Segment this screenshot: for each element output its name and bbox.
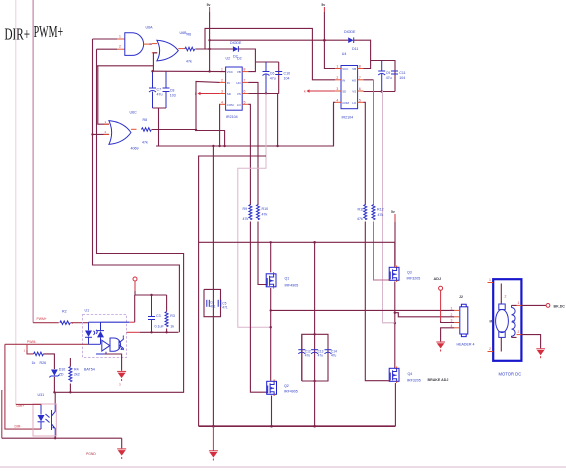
wire: Q4 source to bus corner	[394, 383, 396, 426]
wire: R8 node drop to COM rail	[196, 131, 225, 147]
svg-text:BRAKE ADJ: BRAKE ADJ	[428, 378, 449, 382]
svg-text:C8: C8	[170, 89, 175, 93]
wire: R26 to zener	[44, 354, 55, 369]
ground (header)	[436, 342, 445, 352]
resistor R2	[60, 321, 70, 325]
svg-text:103: 103	[170, 94, 176, 98]
wire: ground bus	[199, 425, 396, 427]
svg-text:104: 104	[399, 76, 405, 80]
svg-text:R11: R11	[358, 208, 364, 212]
svg-text:1: 1	[336, 65, 338, 69]
wire: DIR+ to opto anode	[16, 403, 41, 405]
wire: opto U1 vcc pin up	[129, 321, 135, 323]
svg-text:IRF4905: IRF4905	[285, 284, 299, 288]
wire: ground stem	[121, 438, 123, 448]
wire: motor to BK.DC	[521, 304, 546, 306]
svg-text:Q3: Q3	[407, 271, 412, 275]
svg-text:47u: 47u	[318, 354, 324, 358]
wire: cap bank box	[302, 334, 328, 381]
wire: R10 to Q1 gate	[258, 222, 266, 285]
wire: U6C in2 branch	[93, 133, 109, 135]
ground (motor)	[536, 349, 545, 358]
svg-text:R2: R2	[62, 310, 67, 314]
wire: U2 VS wire	[248, 93, 279, 95]
svg-text:47u: 47u	[270, 77, 276, 81]
resistor R11	[357, 205, 367, 222]
net arrow SD U4	[304, 89, 335, 93]
wire: P5 to header pin3	[440, 296, 442, 321]
svg-text:D10: D10	[59, 368, 66, 372]
wire: RC node riser to U6C in1	[98, 66, 109, 124]
capacitor C4	[207, 300, 216, 309]
svg-text:DIR+: DIR+	[5, 25, 31, 44]
logic gate U6B	[152, 31, 191, 61]
wire: spine from COM rail down	[212, 146, 214, 289]
capacitor C14	[325, 350, 338, 358]
wire: cap bank spine to bus	[314, 334, 316, 426]
wire: gate row2 out to U2 IN	[152, 82, 220, 130]
svg-text:2k2: 2k2	[74, 373, 80, 377]
svg-text:BK.DC: BK.DC	[554, 305, 566, 309]
svg-text:5v: 5v	[321, 3, 325, 7]
svg-text:Q4: Q4	[408, 372, 413, 376]
svg-text:J2: J2	[459, 295, 463, 299]
svg-text:DIR-: DIR-	[15, 425, 22, 429]
svg-text:R10: R10	[262, 207, 269, 211]
svg-text:ZD: ZD	[59, 373, 64, 377]
wire: rail to cap bank spine	[314, 242, 316, 334]
capacitor C12	[298, 350, 311, 358]
svg-text:k: k	[304, 90, 306, 94]
wire: U2 VS drop	[278, 94, 279, 147]
svg-text:R26: R26	[40, 361, 47, 365]
wire: RC node horizontal	[96, 66, 153, 71]
ground (opto U1)	[117, 371, 126, 386]
svg-text:PWM+: PWM+	[37, 317, 47, 321]
wire: PS817 emitter drop	[54, 436, 56, 438]
wire: U2 LO to R9	[248, 104, 250, 205]
capacitor C7	[149, 71, 163, 108]
svg-text:3: 3	[451, 319, 453, 323]
svg-text:47k: 47k	[142, 141, 148, 145]
svg-text:47k: 47k	[243, 217, 249, 221]
wire: Q3 drain	[394, 242, 396, 267]
svg-text:IR2104: IR2104	[342, 116, 354, 120]
svg-text:Q2: Q2	[284, 384, 289, 388]
resistor R3	[165, 295, 175, 332]
connector J2	[451, 295, 475, 347]
wire: U6B in2 from RC node	[153, 53, 157, 66]
svg-text:IRF3205: IRF3205	[407, 379, 421, 383]
svg-text:1: 1	[221, 68, 223, 72]
capacitor C11	[391, 71, 406, 80]
svg-text:R3: R3	[170, 314, 175, 318]
wire: U6A in2	[97, 48, 118, 50]
capacitor C13	[311, 350, 324, 358]
wire: divider tap	[26, 344, 28, 349]
svg-text:DIODE: DIODE	[230, 41, 242, 45]
logic gate U6C	[104, 111, 138, 145]
svg-text:C9: C9	[386, 71, 391, 75]
svg-text:5v: 5v	[391, 210, 395, 214]
resistor R9	[243, 205, 252, 222]
svg-text:47k: 47k	[186, 60, 192, 64]
wire: U4 bootstrap top	[371, 61, 395, 92]
svg-text:R6: R6	[187, 33, 192, 37]
svg-text:2: 2	[518, 330, 520, 334]
svg-text:1: 1	[489, 278, 491, 282]
svg-text:47u: 47u	[386, 76, 392, 80]
optocoupler U31 PS817	[33, 393, 56, 436]
svg-text:104: 104	[284, 77, 290, 81]
wire: cap bank left leg	[301, 334, 303, 381]
svg-text:VS: VS	[237, 92, 241, 96]
svg-text:HO: HO	[352, 78, 357, 82]
wire: U2 HO to R10	[248, 82, 258, 205]
svg-text:SD: SD	[227, 92, 231, 96]
wire: U2 bootstrap top	[255, 61, 278, 63]
diode D2	[230, 41, 242, 59]
svg-text:C7: C7	[157, 88, 162, 92]
wire: D2 to U2 VB node	[238, 49, 255, 72]
resistor R8	[131, 118, 152, 151]
wire: opto U1 gnd	[105, 354, 122, 371]
wire: D4 to U4 VB node	[354, 40, 371, 60]
wire: U4 LO to R11	[364, 102, 366, 205]
output gate	[102, 340, 110, 351]
ground (PS817)	[117, 449, 126, 459]
svg-text:1: 1	[119, 35, 121, 39]
svg-text:ADJ: ADJ	[434, 277, 442, 281]
svg-text:8: 8	[359, 65, 361, 69]
svg-text:HEADER 4: HEADER 4	[457, 343, 475, 347]
svg-text:6: 6	[359, 87, 361, 91]
wire: U6A in1	[93, 38, 118, 40]
svg-text:COM: COM	[227, 103, 234, 107]
svg-text:5v: 5v	[207, 3, 211, 7]
wire: shunt bottom	[383, 322, 395, 324]
svg-text:VCC: VCC	[342, 67, 348, 71]
IC U4 IR2104	[335, 52, 363, 120]
svg-text:MOTOR DC: MOTOR DC	[499, 372, 522, 377]
capacitor C8	[163, 71, 176, 108]
wire: U6A out to U6B in1	[150, 43, 152, 45]
transistor Q1	[266, 272, 298, 289]
svg-text:47k: 47k	[357, 217, 363, 221]
wire: over-the-top to U4 IN	[205, 28, 335, 79]
svg-text:2: 2	[221, 78, 223, 82]
svg-text:1k: 1k	[170, 325, 174, 329]
ground (main bus)	[209, 426, 218, 460]
wire: phase A to header pin1	[271, 309, 455, 311]
svg-text:7: 7	[359, 76, 361, 80]
wire: R2 to opto anode	[71, 322, 89, 324]
svg-text:1: 1	[518, 301, 520, 305]
wire: R9 to Q2 gate	[250, 222, 266, 393]
wire: PWM- riser down	[5, 344, 41, 429]
wire: PWM- return	[5, 343, 89, 345]
svg-text:C6: C6	[270, 72, 275, 76]
svg-text:C10: C10	[284, 72, 291, 76]
optocoupler U1 6N137	[83, 309, 127, 358]
svg-text:1: 1	[451, 306, 453, 310]
svg-text:IRF4905: IRF4905	[284, 390, 298, 394]
wire: phase B to header pin2	[395, 313, 454, 317]
svg-text:Q1: Q1	[285, 277, 290, 281]
svg-text:PGND: PGND	[86, 452, 96, 456]
svg-text:47k: 47k	[262, 213, 268, 217]
svg-text:D2: D2	[237, 57, 242, 61]
svg-text:U4: U4	[342, 52, 347, 56]
svg-text:6: 6	[244, 90, 246, 94]
wire: VCC rail y40 to right	[210, 39, 349, 41]
svg-text:HO: HO	[236, 81, 241, 85]
svg-text:VCC: VCC	[227, 70, 233, 74]
wire: R12 to Q3 gate	[374, 222, 390, 281]
power port P1	[207, 3, 211, 12]
svg-text:471: 471	[210, 305, 216, 309]
wire: DIR+ riser	[15, 0, 17, 404]
svg-text:BAT54: BAT54	[84, 368, 95, 372]
power port P4	[133, 277, 137, 295]
input led pair	[89, 321, 101, 323]
svg-text:VB: VB	[237, 70, 241, 74]
svg-text:2: 2	[119, 45, 121, 49]
wire: Q2 source to bus	[271, 396, 273, 427]
svg-text:IN: IN	[227, 81, 230, 85]
capacitor C6	[263, 62, 276, 94]
svg-text:4: 4	[451, 324, 453, 328]
transistor Q3	[388, 266, 420, 283]
IC U2 IR2104	[220, 57, 248, 120]
wire: U2 bootstrap right	[278, 62, 280, 94]
logic gate U6A (AND)	[117, 26, 153, 56]
capacitor C9	[378, 61, 392, 92]
power port P3	[391, 210, 395, 222]
svg-text:U31: U31	[38, 393, 45, 397]
motor MOTOR DC	[488, 278, 522, 377]
svg-text:COM: COM	[342, 101, 349, 105]
sheet border bottom	[0, 466, 566, 468]
svg-text:2: 2	[336, 76, 338, 80]
svg-text:5: 5	[244, 100, 246, 104]
wire: Q1 drain from rail	[270, 242, 272, 272]
svg-text:IN: IN	[342, 78, 345, 82]
svg-text:1k: 1k	[32, 361, 36, 365]
power port P5	[439, 286, 443, 296]
svg-text:PWM+: PWM+	[34, 22, 64, 41]
wire: R6 out to drivers	[195, 48, 233, 50]
wire: U2 sense line	[238, 94, 271, 328]
wire: PWM+ riser	[32, 0, 34, 323]
svg-text:7: 7	[244, 78, 246, 82]
wire: U4 VB jog	[364, 61, 371, 69]
svg-text:4069: 4069	[131, 147, 139, 151]
wire: snubber box	[204, 289, 221, 316]
wire: COM ground rail y146	[156, 104, 334, 146]
wire: wrapB riser (DIR opto out to U6A in2)	[55, 49, 183, 404]
svg-text:R4: R4	[74, 368, 79, 372]
svg-text:471: 471	[222, 306, 228, 310]
wire: PS817 bottom bus to ground	[2, 437, 122, 439]
wire: P2 riser to U4 VCC	[324, 12, 335, 69]
wire: U4 HO to R12	[364, 79, 374, 81]
transistor Q4	[388, 367, 421, 384]
resistor R6	[185, 47, 195, 51]
svg-text:M: M	[490, 320, 493, 324]
svg-text:8: 8	[244, 68, 246, 72]
svg-text:U2: U2	[226, 57, 231, 61]
svg-text:2: 2	[505, 295, 507, 299]
svg-text:2: 2	[489, 347, 491, 351]
svg-text:C3: C3	[156, 314, 161, 318]
port BK.DC	[546, 304, 565, 309]
svg-text:47u: 47u	[331, 354, 337, 358]
svg-text:U1: U1	[85, 309, 90, 313]
svg-text:3: 3	[221, 90, 223, 94]
wire: U4 sense line	[382, 92, 396, 323]
svg-text:VB: VB	[352, 67, 356, 71]
wire: U4 COM drop to rail y146	[334, 102, 336, 146]
capacitor C10	[275, 72, 290, 81]
net arrow SD U2	[195, 92, 220, 96]
svg-text:0.1uF: 0.1uF	[155, 325, 165, 329]
wire: left descender y156 rail to bus	[199, 156, 201, 426]
capacitor C3	[148, 295, 164, 332]
svg-text:PWM-: PWM-	[27, 340, 36, 344]
svg-text:R8: R8	[143, 118, 148, 122]
wire: caps bottom loop	[153, 108, 167, 146]
svg-text:4: 4	[336, 98, 338, 102]
svg-text:C11: C11	[399, 71, 405, 75]
svg-text:4: 4	[221, 100, 223, 104]
wire: header pin4 to ground	[441, 328, 455, 342]
power port P2	[321, 3, 325, 12]
wire: main +rail y242	[199, 241, 395, 243]
svg-text:5: 5	[359, 98, 361, 102]
wire: phase B node	[394, 282, 396, 369]
svg-text:IR2104: IR2104	[226, 115, 238, 119]
svg-text:U6C: U6C	[130, 111, 138, 115]
resistor R4	[69, 358, 95, 392]
wire: wrapA riser (PWM opto out to U6A in1)	[93, 39, 180, 332]
svg-text:47u: 47u	[157, 93, 163, 97]
svg-text:DIODE: DIODE	[344, 30, 356, 34]
svg-text:SD: SD	[342, 90, 346, 94]
svg-text:3: 3	[336, 87, 338, 91]
wire: opto U1 output node	[127, 331, 141, 333]
svg-text:U6A: U6A	[146, 26, 154, 30]
wire: P1 riser to U2 VCC	[209, 12, 211, 72]
resistor R10	[257, 205, 269, 220]
svg-text:R9: R9	[243, 207, 248, 211]
wire: vcc wire to pullup	[135, 294, 167, 296]
svg-text:R12: R12	[377, 208, 384, 212]
wire: PWM+ into resistor	[33, 322, 59, 324]
wire: caps top rail to U2 VCC	[153, 70, 226, 72]
svg-text:47u: 47u	[305, 354, 311, 358]
svg-text:47k: 47k	[378, 213, 384, 217]
diode D10 zener	[49, 368, 65, 393]
svg-text:IRF3205: IRF3205	[407, 277, 421, 281]
resistor R26	[27, 350, 46, 365]
wire: R11 to Q4 gate	[365, 222, 389, 381]
wire: motor low side to ground	[521, 335, 540, 349]
wire: phase A node	[270, 288, 272, 381]
svg-text:2: 2	[451, 313, 453, 317]
diode D4	[344, 30, 358, 51]
resistor R12	[372, 205, 384, 220]
capacitor C5	[218, 300, 228, 310]
wire: P3 to rail	[394, 222, 396, 266]
svg-text:VS: VS	[352, 90, 356, 94]
svg-text:RL: RL	[512, 320, 516, 324]
wire: spine through box to bus	[212, 289, 214, 426]
wire: y156 wire	[199, 155, 266, 157]
wire: U2 COM drop	[219, 104, 221, 146]
wire: U4 VS wire	[364, 91, 396, 93]
wire: edge return riser	[1, 390, 3, 438]
svg-text:D11: D11	[352, 47, 358, 51]
transistor Q2	[267, 380, 298, 397]
